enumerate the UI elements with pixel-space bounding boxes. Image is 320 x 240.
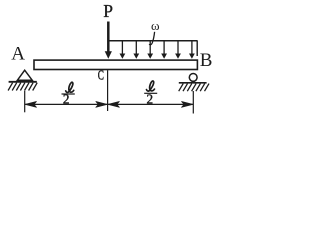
svg-text:2: 2 (63, 92, 70, 107)
svg-text:A: A (11, 44, 25, 65)
svg-text:2: 2 (147, 92, 154, 107)
svg-text:C: C (98, 66, 104, 83)
svg-text:B: B (200, 50, 213, 71)
svg-text:P: P (103, 1, 113, 21)
svg-text:ω: ω (151, 18, 160, 33)
